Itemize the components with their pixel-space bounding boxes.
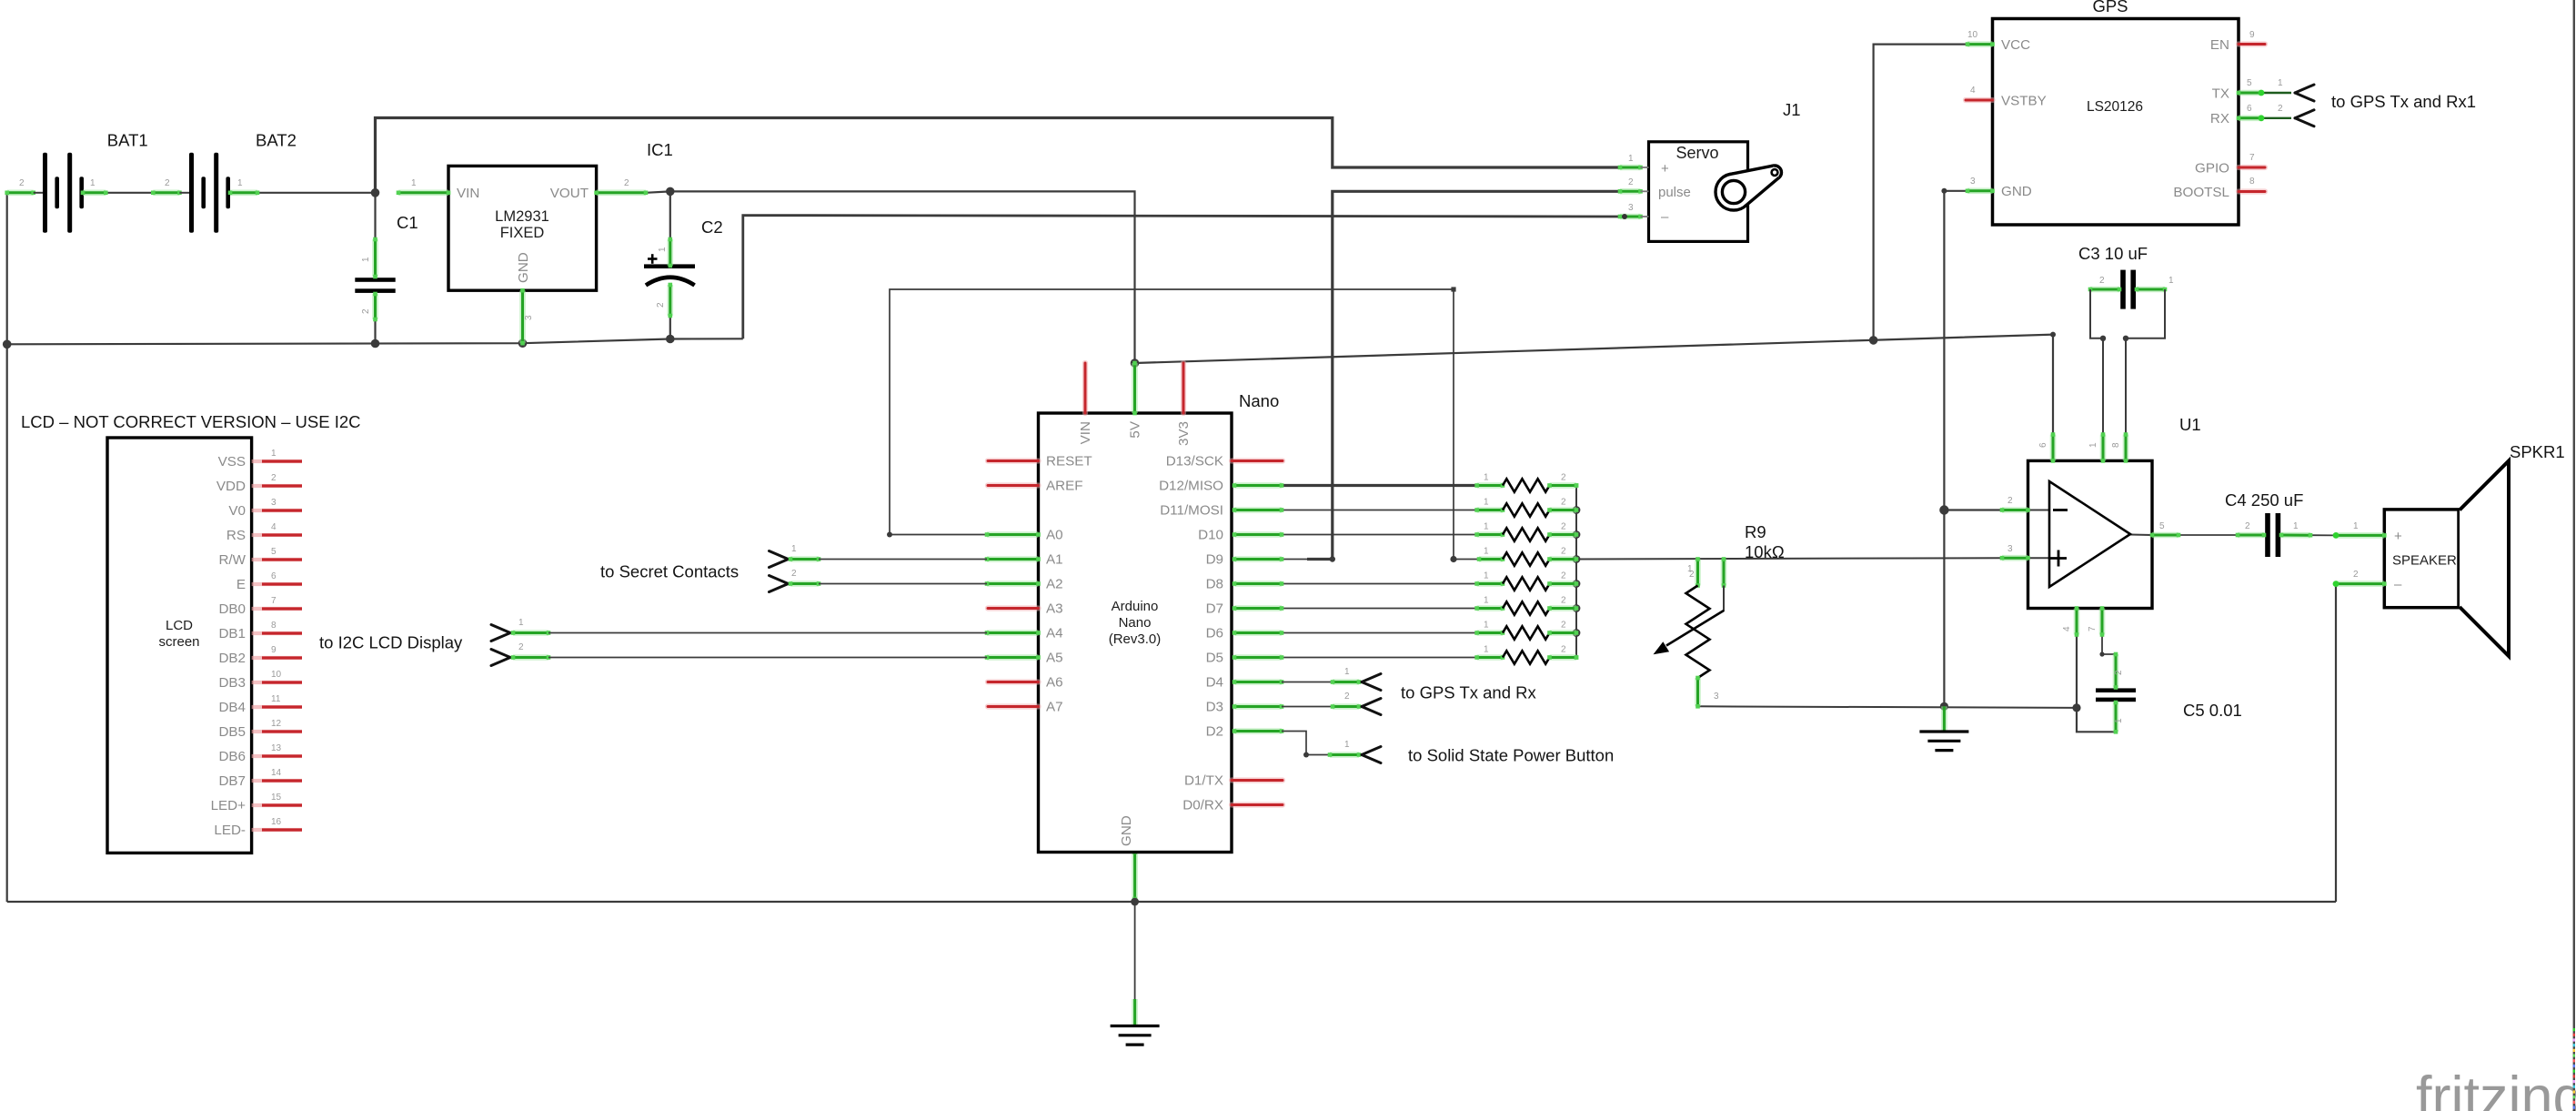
pin A1 Nano — [985, 557, 1041, 561]
svg-text:2: 2 — [1561, 645, 1566, 655]
fritzing watermark — [2416, 1066, 2576, 1111]
svg-text:7: 7 — [271, 596, 277, 606]
pin 8 GPS — [2249, 177, 2255, 187]
pin 1 d4conn — [1344, 667, 1350, 677]
svg-text:7: 7 — [2249, 153, 2255, 163]
resistor R6 lead2 — [1547, 606, 1578, 611]
GPS module box — [1993, 19, 2239, 226]
svg-text:13: 13 — [271, 743, 282, 753]
svg-text:1: 1 — [791, 544, 797, 554]
label C4 250 uF — [2225, 490, 2303, 510]
potentiometer R9 wiper arrow — [1654, 611, 1725, 654]
label to I2C LCD Display — [319, 633, 463, 652]
svg-text:2: 2 — [791, 569, 797, 579]
svg-text:U1: U1 — [2179, 415, 2201, 434]
pin VCC GPS — [1966, 42, 1995, 46]
wire node 5VOUT down to C2 — [669, 191, 671, 239]
pin label VSTBY — [2001, 94, 2047, 109]
pin 1 C5 — [2114, 718, 2124, 723]
pin 1 R2 — [1484, 498, 1489, 508]
pin 1 R9 — [1687, 564, 1693, 574]
svg-text:2: 2 — [1344, 692, 1350, 702]
pin RS LCD — [252, 533, 302, 537]
pin label VSS LCD — [218, 454, 246, 470]
capacitor C1 lead2 — [373, 292, 377, 322]
pin 2 R3 — [1561, 522, 1566, 532]
svg-text:+: + — [2394, 529, 2402, 544]
resistor R2 body — [1503, 503, 1550, 516]
svg-text:to GPS Tx and Rx1: to GPS Tx and Rx1 — [2331, 92, 2476, 111]
svg-text:R/W: R/W — [218, 552, 246, 568]
pin label + speaker — [2394, 529, 2402, 544]
svg-text:9: 9 — [271, 645, 277, 655]
op-amp U1 box — [2028, 460, 2153, 608]
pin 1 R8 — [1484, 645, 1489, 655]
pin label BOOTSL — [2173, 185, 2229, 200]
pin D9 Nano — [1233, 557, 1284, 561]
connector to I2C LCD 2 — [491, 650, 987, 666]
pin label A5 Nano — [1046, 651, 1063, 666]
bendpoint GPS GND corner — [1941, 188, 1947, 194]
pin 9 LCD — [271, 645, 277, 655]
pin VDD LCD — [252, 484, 302, 488]
svg-text:DB1: DB1 — [218, 626, 246, 641]
svg-text:14: 14 — [271, 768, 282, 778]
pin 5 label U1 — [2159, 521, 2165, 531]
resistor R2 lead2 — [1547, 508, 1578, 512]
connector to Secret Contacts A2 — [770, 576, 988, 592]
bendpoint C3-U1 right — [2123, 336, 2128, 341]
svg-text:D2: D2 — [1206, 724, 1223, 740]
wire C1 to GND bus — [374, 319, 376, 344]
resistor R1 lead2 — [1547, 483, 1578, 488]
pin label 3V3 Nano — [1176, 421, 1192, 446]
junction resistor bus row 6 — [1573, 604, 1581, 612]
pin AREF Nano — [988, 482, 1039, 488]
svg-text:3: 3 — [2007, 544, 2013, 554]
junction Nano 5V/5V rail — [1131, 359, 1140, 368]
pin label D4 Nano — [1206, 675, 1223, 691]
svg-text:to I2C LCD Display: to I2C LCD Display — [319, 633, 463, 652]
pin EN GPS — [2239, 41, 2265, 46]
capacitor C2 plus sign — [648, 254, 658, 264]
svg-text:A4: A4 — [1046, 626, 1063, 641]
pin 2 IC1 — [624, 178, 629, 188]
capacitor C2 plate+ — [644, 264, 695, 268]
svg-text:2: 2 — [1561, 621, 1566, 631]
wire SPKR1 pin2 to GND bus — [2335, 584, 2337, 902]
wire Nano D8 to resistor — [1282, 583, 1477, 585]
svg-text:2: 2 — [1561, 522, 1566, 532]
pin 3 servo — [1628, 203, 1634, 213]
capacitor C3 lead1 — [2135, 288, 2168, 292]
label to GPS Tx and Rx — [1401, 683, 1536, 702]
pin label 5V Nano — [1128, 420, 1143, 438]
pin label A2 Nano — [1046, 577, 1063, 592]
pin label DB0 LCD — [218, 601, 246, 617]
svg-text:LCD: LCD — [166, 618, 193, 633]
bendpoint U1 pin7 wire — [2099, 651, 2104, 656]
svg-text:8: 8 — [2249, 177, 2255, 187]
potentiometer R9 pin1 — [1696, 557, 1700, 588]
svg-text:5: 5 — [2159, 521, 2165, 531]
label R9 value — [1745, 542, 1785, 561]
capacitor C2 curved plate — [646, 278, 695, 286]
pin label D5 Nano — [1206, 651, 1223, 666]
pin 6 GPS — [2247, 104, 2252, 114]
svg-text:10: 10 — [271, 670, 282, 680]
op-amp plus input mark — [2050, 550, 2067, 567]
connector to GPS Rx 1 — [2295, 110, 2314, 126]
pin label GND IC1 — [516, 252, 531, 283]
pin 2 i2c — [518, 642, 524, 652]
svg-text:2: 2 — [2353, 570, 2359, 580]
junction C2/GND bus — [666, 335, 675, 344]
svg-text:RESET: RESET — [1046, 454, 1092, 470]
svg-text:A3: A3 — [1046, 601, 1063, 617]
capacitor C4 lead2 — [2236, 533, 2267, 538]
junction U1 pin4/C5 — [2072, 703, 2080, 712]
pin 5 U1 — [2150, 533, 2181, 538]
connector to GPS Rx D3 — [1282, 699, 1381, 715]
pin label D12-MISO Nano — [1159, 479, 1223, 494]
svg-text:VIN: VIN — [457, 186, 479, 201]
potentiometer R9 pin3 — [1696, 676, 1700, 709]
svg-text:1: 1 — [2168, 276, 2174, 286]
svg-text:to Solid State Power Button: to Solid State Power Button — [1408, 746, 1614, 765]
svg-text:2: 2 — [19, 178, 25, 188]
label C1 — [397, 213, 418, 232]
speaker SPKR1 cone — [2460, 461, 2509, 657]
wire Nano D7 to resistor — [1282, 608, 1477, 610]
bendpoint C3-U1 left — [2100, 336, 2106, 341]
wire ground node to C5 pin1 — [2077, 708, 2116, 732]
svg-text:2: 2 — [2245, 521, 2250, 531]
pin VIN Nano — [1082, 363, 1088, 413]
pin label VIN Nano — [1078, 421, 1093, 444]
svg-text:SPKR1: SPKR1 — [2510, 442, 2565, 461]
svg-text:DB0: DB0 — [218, 601, 246, 617]
pin label D7 Nano — [1206, 601, 1223, 617]
svg-text:D5: D5 — [1206, 651, 1223, 666]
battery BAT2 — [151, 153, 259, 233]
svg-text:VIN: VIN — [1078, 421, 1093, 444]
pin label A3 Nano — [1046, 601, 1063, 617]
wire servo pulse to Nano D9 — [1307, 191, 1620, 559]
svg-text:VCC: VCC — [2001, 37, 2030, 53]
pin 4 U1 — [2075, 606, 2079, 637]
op-amp minus input mark — [2053, 509, 2068, 511]
svg-text:6: 6 — [2038, 442, 2048, 448]
junction A0/D9 net — [1450, 556, 1456, 562]
svg-text:3: 3 — [1714, 692, 1719, 702]
svg-text:D4: D4 — [1206, 675, 1223, 691]
pin label LED- LCD — [214, 823, 246, 838]
bendpoint 5V rail corner — [2050, 332, 2056, 338]
svg-text:1: 1 — [2353, 521, 2359, 531]
op-amp U1 internal pin lines — [2028, 510, 2153, 559]
svg-text:1: 1 — [2114, 718, 2124, 723]
pin LED+ LCD — [252, 803, 302, 807]
wire IC1 VOUT to node 5VOUT — [646, 191, 670, 192]
svg-text:screen: screen — [158, 634, 199, 650]
junction resistor bus row 3 — [1573, 530, 1581, 539]
svg-text:C1: C1 — [397, 213, 418, 232]
pin 1 R1 — [1484, 473, 1489, 483]
svg-text:LM2931: LM2931 — [495, 208, 549, 225]
svg-text:to Secret Contacts: to Secret Contacts — [600, 562, 739, 581]
capacitor C2 lead1 — [669, 237, 673, 268]
wire Nano D11 to resistor — [1282, 510, 1477, 511]
pin 1 IC1 — [411, 178, 417, 188]
pin 10 GPS — [1967, 30, 1978, 40]
svg-text:1: 1 — [1484, 571, 1489, 581]
resistor R4 lead2 — [1547, 557, 1578, 561]
pin A6 Nano — [988, 679, 1039, 684]
svg-text:VSTBY: VSTBY — [2001, 94, 2047, 109]
svg-text:6: 6 — [271, 571, 277, 581]
svg-text:2: 2 — [1561, 596, 1566, 606]
resistor R4 lead1 — [1477, 557, 1505, 561]
pin 7 label U1 — [2088, 626, 2098, 631]
capacitor C2 lead2 — [669, 283, 673, 318]
wire GPS VCC riser — [1874, 45, 1967, 340]
pin A2 Nano — [985, 581, 1041, 586]
pin A5 Nano — [985, 655, 1041, 660]
pin 1 LCD — [271, 449, 277, 459]
pin label A4 Nano — [1046, 626, 1063, 641]
pin 2 label U1 — [2007, 496, 2013, 506]
pin 2 R1 — [1561, 473, 1566, 483]
pin D13-SCK Nano — [1232, 458, 1283, 463]
pin 2 LCD — [271, 473, 277, 483]
wire Nano D10 to resistor — [1282, 534, 1477, 536]
pin + servo — [1618, 166, 1649, 170]
pin VOUT IC1 — [594, 191, 648, 196]
wire bus end square top — [1575, 483, 1579, 488]
pin 13 LCD — [271, 743, 282, 753]
label to Solid State Power Button — [1408, 746, 1614, 765]
wire Nano A0 to D9/R4 node — [890, 289, 1454, 560]
svg-text:to GPS Tx and Rx: to GPS Tx and Rx — [1401, 683, 1536, 702]
svg-text:11: 11 — [271, 694, 281, 704]
regulator IC1 box — [448, 166, 597, 290]
pin label GND GPS — [2001, 184, 2032, 199]
pin RX GPS — [2237, 115, 2291, 121]
pin label DB5 LCD — [218, 724, 246, 740]
svg-text:1: 1 — [1484, 547, 1489, 557]
pin 1 R7 — [1484, 621, 1489, 631]
pin DB1 LCD — [252, 631, 302, 635]
pin label VOUT — [550, 186, 589, 201]
wire R9 pin2 down — [1723, 586, 1725, 612]
svg-text:A7: A7 — [1046, 700, 1063, 715]
pin 3 U1 — [2000, 556, 2030, 561]
svg-text:2: 2 — [271, 473, 277, 483]
label C2 — [701, 217, 723, 237]
label U1 — [2179, 415, 2201, 434]
pin 1 GPS conn — [2278, 78, 2283, 88]
svg-text:2: 2 — [1561, 498, 1566, 508]
svg-text:5: 5 — [271, 547, 277, 557]
label to GPS Tx and Rx1 — [2331, 92, 2476, 111]
pin VIN IC1 — [397, 191, 451, 196]
pin label EN — [2210, 37, 2229, 53]
pin 3V3 Nano — [1181, 363, 1186, 413]
pin 7 GPS — [2249, 153, 2255, 163]
pin label GPIO — [2195, 161, 2229, 177]
battery BAT1 — [5, 153, 107, 233]
svg-text:10: 10 — [1967, 30, 1978, 40]
pin 2 BAT1 — [19, 178, 25, 188]
pin label RESET Nano — [1046, 454, 1092, 470]
svg-text:D8: D8 — [1206, 577, 1223, 592]
pin 1 U1 — [2101, 432, 2106, 463]
pin RESET Nano — [988, 458, 1039, 463]
wire GND bus to servo - (riser and run) — [743, 216, 1620, 339]
svg-text:2: 2 — [624, 178, 629, 188]
ground symbol below Nano — [1111, 999, 1160, 1045]
pin - servo — [1618, 214, 1649, 219]
wire DAC bus to R9 and U1 pin3 — [1576, 558, 2002, 559]
label IC1 — [647, 140, 673, 159]
pin label - servo — [1661, 209, 1669, 225]
svg-text:EN: EN — [2210, 37, 2229, 53]
svg-text:(Rev3.0): (Rev3.0) — [1109, 631, 1162, 647]
pin 3 GPS — [1970, 177, 1976, 187]
pin label A0 Nano — [1046, 528, 1063, 543]
pin label D2 Nano — [1206, 724, 1223, 740]
svg-text:A0: A0 — [1046, 528, 1063, 543]
svg-text:1: 1 — [1344, 667, 1350, 677]
wire U1 pin2 (-in) to GND net — [1944, 509, 2002, 510]
wire GPS GND down to ground — [1944, 191, 1967, 707]
svg-text:8: 8 — [271, 621, 277, 631]
pin 1 R5 — [1484, 571, 1489, 581]
junction Nano GND/bus — [1131, 898, 1139, 906]
connector to I2C LCD 1 — [491, 625, 987, 641]
junction GPS-GND wire/U1 pin2 — [1939, 505, 1948, 514]
resistor R3 body — [1503, 528, 1550, 540]
svg-text:Servo: Servo — [1675, 144, 1718, 162]
svg-text:GPS: GPS — [2092, 0, 2128, 15]
resistor R5 lead2 — [1547, 581, 1578, 586]
pin LED- LCD — [252, 828, 302, 832]
pin 5 LCD — [271, 547, 277, 557]
svg-text:1: 1 — [1344, 740, 1350, 750]
pin 2 label SPKR1 — [2353, 570, 2359, 580]
label C3 10 uF — [2078, 244, 2148, 263]
pin 1 C4 — [2293, 521, 2299, 531]
pin 2 C4 — [2245, 521, 2250, 531]
svg-text:+: + — [1661, 161, 1669, 177]
svg-text:GND: GND — [516, 252, 531, 283]
pin 2 GPS conn — [2278, 104, 2283, 114]
pin 1 C2 — [658, 247, 668, 252]
pin 15 LCD — [271, 793, 282, 803]
pin D1-TX Nano — [1232, 777, 1283, 783]
svg-text:D13/SCK: D13/SCK — [1166, 454, 1223, 470]
svg-text:2: 2 — [2099, 276, 2105, 286]
pin 7 U1 — [2100, 606, 2105, 637]
svg-text:2: 2 — [2278, 104, 2283, 114]
resistor R1 body — [1503, 479, 1550, 491]
svg-text:1: 1 — [90, 178, 96, 188]
wire BAT1 pin1 to BAT2 pin2 — [106, 192, 153, 194]
pin A0 Nano — [985, 532, 1041, 537]
junction left-edge/GND-bus — [3, 340, 12, 349]
svg-text:9: 9 — [2249, 30, 2255, 40]
svg-text:2: 2 — [1561, 473, 1566, 483]
connector to power button D2 — [1282, 732, 1381, 763]
svg-text:1: 1 — [518, 618, 524, 628]
pin label A1 Nano — [1046, 552, 1063, 568]
svg-text:E: E — [236, 577, 246, 592]
pin DB4 LCD — [252, 705, 302, 709]
svg-text:Nano: Nano — [1119, 615, 1152, 631]
pin 2 C3 — [2099, 276, 2105, 286]
pin label A6 Nano — [1046, 675, 1063, 691]
svg-text:1: 1 — [2088, 442, 2098, 448]
capacitor C4 plates — [2265, 513, 2280, 557]
pin label pulse — [1658, 185, 1691, 200]
svg-text:4: 4 — [2062, 626, 2072, 631]
pin 2 BAT2 — [165, 178, 170, 188]
pin label D11-MOSI Nano — [1160, 503, 1223, 519]
svg-text:10kΩ: 10kΩ — [1745, 542, 1785, 561]
pin label D1-TX Nano — [1184, 773, 1223, 789]
capacitor C5 plates — [2096, 688, 2136, 702]
junction resistor bus row 5 — [1573, 580, 1581, 588]
junction resistor bus row 4 — [1573, 555, 1581, 563]
svg-text:1: 1 — [1484, 645, 1489, 655]
svg-text:DB4: DB4 — [218, 700, 246, 715]
pin label D8 Nano — [1206, 577, 1223, 592]
svg-text:V0: V0 — [228, 503, 246, 519]
pin 2 C5 — [2114, 670, 2124, 675]
resistor R7 body — [1503, 626, 1550, 639]
resistor R8 body — [1503, 651, 1550, 663]
pin label D13-SCK Nano — [1166, 454, 1223, 470]
label R9 — [1745, 522, 1766, 541]
pin label DB2 LCD — [218, 651, 246, 666]
pin 4 GPS — [1970, 86, 1976, 96]
pin 1 C1 — [361, 257, 371, 262]
resistor R8 lead2 — [1547, 655, 1578, 660]
svg-text:LED+: LED+ — [211, 798, 247, 813]
potentiometer R9 pin2 — [1722, 557, 1726, 588]
pin label GND Nano — [1119, 815, 1134, 846]
wire bottom GND bus — [7, 901, 2336, 903]
svg-text:LS20126: LS20126 — [2087, 99, 2143, 115]
svg-text:1: 1 — [361, 257, 371, 262]
svg-text:VDD: VDD — [216, 479, 246, 494]
svg-text:D9: D9 — [1206, 552, 1223, 568]
pin label DB4 LCD — [218, 700, 246, 715]
svg-text:3: 3 — [1970, 177, 1976, 187]
svg-text:2: 2 — [2007, 496, 2013, 506]
capacitor C1 plates — [355, 278, 395, 293]
wire U1 pin5 to C4 — [2179, 534, 2238, 536]
svg-text:6: 6 — [2247, 104, 2252, 114]
svg-text:J1: J1 — [1783, 100, 1801, 119]
svg-text:GND: GND — [1119, 815, 1134, 846]
pin label AREF Nano — [1046, 479, 1083, 494]
pin BOOTSL GPS — [2239, 188, 2265, 194]
pin 1 R4 — [1484, 547, 1489, 557]
wire R9 pin3 to ground node — [1698, 706, 2078, 708]
pin D7 Nano — [1233, 606, 1284, 611]
